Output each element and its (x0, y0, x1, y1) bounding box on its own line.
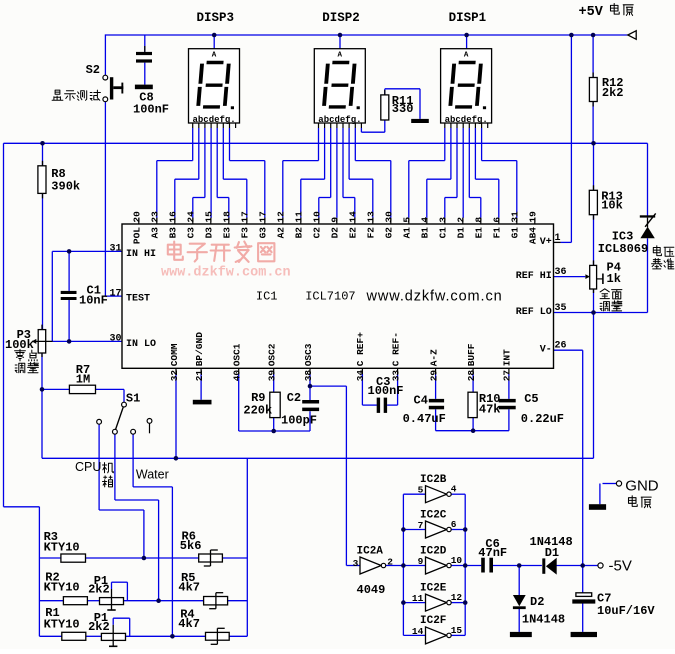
svg-text:10k: 10k (601, 198, 623, 212)
svg-text:27: 27 (502, 370, 513, 382)
svg-text:4k7: 4k7 (178, 581, 200, 595)
svg-text:C REF+: C REF+ (355, 332, 366, 367)
svg-text:C5: C5 (524, 392, 538, 406)
svg-text:34: 34 (355, 370, 366, 382)
svg-text:IN LO: IN LO (126, 339, 156, 350)
svg-text:3: 3 (353, 558, 359, 569)
svg-text:ICL8069: ICL8069 (598, 242, 648, 256)
svg-text:220k: 220k (243, 403, 272, 417)
svg-text:A: A (338, 52, 343, 60)
svg-text:A: A (464, 52, 469, 60)
svg-text:OSC2: OSC2 (267, 343, 278, 366)
svg-text:6: 6 (451, 519, 457, 530)
svg-text:9: 9 (418, 556, 424, 567)
svg-text:2k2: 2k2 (88, 583, 110, 597)
svg-text:COMM: COMM (169, 343, 180, 366)
svg-text:G3: G3 (258, 227, 269, 239)
svg-text:17: 17 (258, 211, 269, 223)
svg-text:F3: F3 (240, 227, 251, 239)
svg-text:C2: C2 (312, 227, 323, 239)
svg-text:DISP2: DISP2 (322, 11, 360, 25)
svg-text:TEST: TEST (126, 294, 150, 305)
svg-text:15: 15 (451, 625, 463, 636)
svg-text:31: 31 (510, 211, 521, 223)
svg-text:18: 18 (222, 211, 233, 223)
svg-text:DISP3: DISP3 (197, 11, 235, 25)
svg-text:C4: C4 (414, 394, 428, 408)
svg-text:100pF: 100pF (281, 414, 317, 428)
svg-text:POL: POL (132, 227, 143, 244)
svg-text:100nF: 100nF (133, 102, 169, 116)
svg-text:10: 10 (312, 211, 323, 223)
svg-text:0.22uF: 0.22uF (521, 412, 564, 426)
svg-text:DISP1: DISP1 (449, 11, 487, 25)
svg-text:15: 15 (204, 211, 215, 223)
svg-text:IN HI: IN HI (126, 249, 156, 260)
svg-text:REF HI: REF HI (516, 271, 552, 282)
svg-text:C3: C3 (186, 227, 197, 239)
svg-text:10uF/16V: 10uF/16V (597, 604, 655, 618)
svg-text:35: 35 (555, 303, 567, 314)
svg-text:IC1: IC1 (256, 290, 278, 304)
svg-text:A-Z: A-Z (428, 349, 439, 366)
svg-text:26: 26 (555, 341, 567, 352)
svg-text:4: 4 (420, 217, 431, 223)
svg-text:47nF: 47nF (478, 546, 507, 560)
svg-text:KTY10: KTY10 (44, 618, 80, 632)
svg-text:A1: A1 (402, 227, 413, 239)
svg-text:S2: S2 (86, 63, 100, 77)
svg-text:100k: 100k (5, 338, 34, 352)
svg-text:CPU: CPU (75, 460, 101, 474)
svg-text:A2: A2 (276, 227, 287, 239)
svg-text:20: 20 (132, 211, 143, 223)
svg-text:A: A (212, 52, 217, 60)
svg-text:BP/GND: BP/GND (194, 332, 205, 367)
svg-text:29: 29 (428, 370, 439, 382)
svg-text:17: 17 (240, 211, 251, 223)
svg-text:2: 2 (387, 557, 393, 568)
svg-text:330: 330 (392, 102, 414, 116)
svg-text:40: 40 (232, 370, 243, 382)
svg-text:2k2: 2k2 (88, 620, 110, 634)
svg-text:www.dzkfw.com.cn: www.dzkfw.com.cn (161, 266, 291, 281)
svg-text:IC2B: IC2B (420, 474, 447, 486)
svg-text:A3: A3 (150, 227, 161, 239)
svg-text:www.dzkfw.com.cn: www.dzkfw.com.cn (366, 289, 503, 305)
svg-text:12: 12 (276, 211, 287, 223)
svg-text:V+: V+ (540, 237, 552, 248)
svg-text:D1: D1 (456, 227, 467, 239)
svg-text:D3: D3 (204, 227, 215, 239)
svg-text:19: 19 (528, 211, 539, 223)
svg-text:E3: E3 (222, 227, 233, 239)
svg-text:30: 30 (109, 334, 121, 345)
svg-text:5: 5 (402, 217, 413, 223)
svg-text:16: 16 (168, 211, 179, 223)
svg-text:D2: D2 (530, 595, 544, 609)
svg-text:G1: G1 (510, 227, 521, 239)
svg-text:9: 9 (330, 217, 341, 223)
svg-text:390k: 390k (51, 180, 80, 194)
svg-text:OSC1: OSC1 (232, 343, 243, 366)
svg-text:7: 7 (418, 520, 424, 531)
svg-text:5: 5 (418, 485, 424, 496)
svg-text:B1: B1 (420, 227, 431, 239)
svg-text:Water: Water (136, 468, 169, 482)
svg-text:30: 30 (384, 211, 395, 223)
svg-text:IC2F: IC2F (420, 615, 446, 627)
svg-text:GND: GND (625, 478, 659, 495)
svg-text:1k: 1k (607, 272, 621, 286)
svg-text:32: 32 (169, 370, 180, 382)
svg-text:33: 33 (390, 370, 401, 382)
svg-text:23: 23 (150, 211, 161, 223)
svg-text:S1: S1 (126, 392, 140, 406)
svg-text:F1: F1 (492, 227, 503, 239)
svg-text:INT: INT (502, 349, 513, 366)
svg-text:28: 28 (466, 370, 477, 382)
svg-text:C1: C1 (438, 227, 449, 239)
svg-text:V-: V- (540, 345, 552, 356)
svg-text:E2: E2 (348, 227, 359, 239)
svg-text:E1: E1 (474, 227, 485, 239)
svg-text:36: 36 (555, 267, 567, 278)
svg-text:AB4: AB4 (528, 227, 539, 244)
svg-text:3: 3 (438, 217, 449, 223)
svg-text:4049: 4049 (357, 583, 386, 597)
svg-text:0.47uF: 0.47uF (403, 412, 446, 426)
svg-text:C REF-: C REF- (390, 332, 401, 366)
svg-text:IC2E: IC2E (420, 582, 447, 594)
svg-text:10nF: 10nF (79, 294, 108, 308)
svg-text:KTY10: KTY10 (44, 580, 80, 594)
svg-text:1N4148: 1N4148 (522, 613, 565, 627)
svg-text:B2: B2 (294, 227, 305, 239)
svg-text:REF LO: REF LO (516, 307, 552, 318)
svg-text:2k2: 2k2 (602, 86, 624, 100)
svg-text:24: 24 (186, 211, 197, 223)
svg-text:+5V: +5V (579, 5, 604, 20)
svg-text:4k7: 4k7 (178, 617, 200, 631)
svg-text:5k6: 5k6 (180, 539, 202, 553)
svg-text:39: 39 (267, 370, 278, 382)
svg-text:1M: 1M (76, 372, 90, 386)
svg-text:10: 10 (451, 555, 463, 566)
svg-text:12: 12 (451, 592, 463, 603)
svg-text:D1: D1 (545, 546, 559, 560)
svg-text:G2: G2 (384, 227, 395, 239)
svg-text:11: 11 (412, 593, 424, 604)
svg-text:4: 4 (451, 484, 457, 495)
svg-text:1: 1 (555, 233, 561, 244)
svg-text:ICL7107: ICL7107 (305, 290, 355, 304)
svg-text:KTY10: KTY10 (44, 540, 80, 554)
svg-text:14: 14 (412, 626, 424, 637)
svg-text:D2: D2 (330, 227, 341, 239)
svg-text:8: 8 (474, 217, 485, 223)
svg-text:11: 11 (294, 211, 305, 223)
svg-text:6: 6 (492, 217, 503, 223)
svg-text:C2: C2 (287, 391, 301, 405)
svg-text:13: 13 (366, 211, 377, 223)
svg-text:31: 31 (109, 244, 121, 255)
svg-text:14: 14 (348, 211, 359, 223)
svg-text:B3: B3 (168, 227, 179, 239)
svg-text:F2: F2 (366, 227, 377, 239)
svg-text:2: 2 (456, 217, 467, 223)
svg-text:BUFF: BUFF (466, 343, 477, 366)
svg-text:IC2D: IC2D (420, 545, 447, 557)
svg-text:-5V: -5V (609, 558, 632, 575)
svg-text:21: 21 (194, 370, 205, 382)
svg-text:IC2A: IC2A (357, 546, 384, 558)
svg-text:17: 17 (109, 288, 121, 299)
svg-text:100nF: 100nF (368, 384, 404, 398)
svg-text:47k: 47k (479, 403, 501, 417)
svg-text:38: 38 (303, 370, 314, 382)
svg-text:OSC3: OSC3 (303, 343, 314, 366)
svg-text:IC2C: IC2C (420, 509, 447, 521)
